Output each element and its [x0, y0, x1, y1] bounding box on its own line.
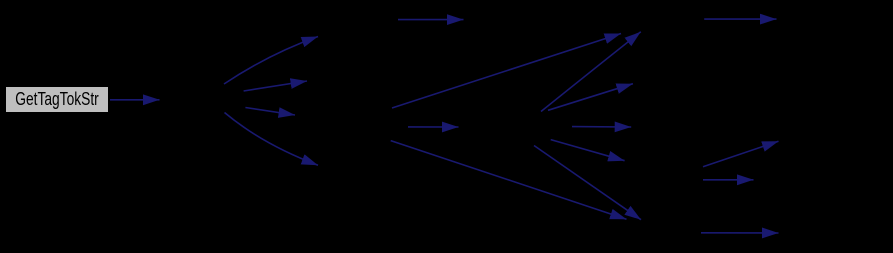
wire A3	[244, 81, 307, 91]
wire A16	[703, 141, 779, 167]
wire A18	[701, 232, 779, 234]
wire A9	[391, 141, 627, 220]
wire A6	[398, 19, 464, 21]
wire A13	[548, 84, 633, 111]
wire A5	[225, 113, 319, 166]
wire A4	[245, 108, 295, 116]
node GetTagTokStr	[6, 87, 109, 113]
wire A15	[704, 18, 776, 20]
svg-text:GetTagTokStr: GetTagTokStr	[15, 88, 99, 109]
wire A7	[392, 34, 621, 109]
wire A10	[551, 140, 625, 161]
wire A1	[110, 99, 160, 101]
wire A12	[541, 32, 641, 112]
wire A11	[572, 126, 631, 128]
wire A2	[224, 37, 318, 85]
wire A8	[408, 126, 459, 128]
wire A17	[703, 179, 754, 181]
wire A14	[534, 146, 641, 220]
